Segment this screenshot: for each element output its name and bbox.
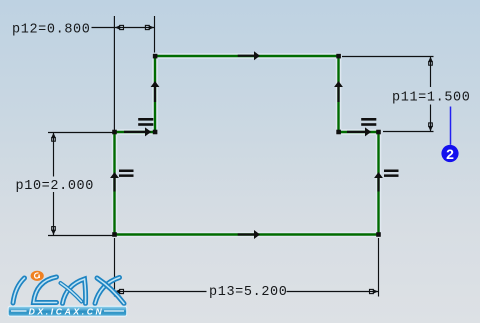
logo letter C (34, 277, 57, 303)
logo letter A (63, 279, 86, 304)
p10 extension line top (48, 132, 113, 134)
profile outline (green sketch curve) (115, 56, 379, 235)
dimension p10=2.000 (48, 133, 113, 236)
svg-text:p13=5.200: p13=5.200 (209, 285, 288, 300)
p11 dimension line (430, 57, 432, 88)
p13 arrowheads (115, 289, 378, 294)
direction arrow on bottom segment (238, 230, 260, 239)
svg-text:2: 2 (446, 146, 454, 162)
svg-text:DX.ICAX.CN: DX.ICAX.CN (29, 306, 105, 316)
p11 extension line bottom (383, 131, 434, 133)
direction arrow on lower-right vertical (374, 172, 383, 192)
equal-length constraint near lower-right vertical (384, 170, 399, 177)
svg-text:p12=0.800: p12=0.800 (12, 23, 91, 38)
vertex markers (112, 54, 381, 237)
p10 extension line bottom (48, 235, 113, 237)
direction arrow on lower-left vertical (110, 172, 119, 192)
dimension p12=0.800 (92, 16, 155, 131)
logo i dot (31, 271, 44, 281)
dimension p11=1.500 (342, 57, 434, 132)
direction arrow on upper-left vertical (151, 81, 160, 102)
p13 dimension line (115, 291, 207, 293)
dimension p13=5.200 (115, 238, 379, 297)
p12 arrowheads (115, 25, 154, 30)
equal-length constraint near left step (138, 118, 153, 126)
profile outline halo (115, 56, 379, 235)
equal-length constraint near lower-left vertical (119, 170, 134, 177)
logo letter i stroke (13, 278, 25, 303)
p13 extension line left (114, 238, 116, 297)
p11 arrowheads (428, 57, 433, 132)
direction arrow on upper-right vertical (334, 81, 343, 102)
equal-length constraint near right step (361, 118, 376, 126)
balloon leader line (450, 107, 452, 145)
p12 extension line right (154, 16, 156, 53)
logo letter X (95, 278, 120, 304)
logo banner center lines (11, 310, 27, 312)
p10 dimension line (53, 133, 55, 177)
direction arrow on top segment (238, 51, 260, 60)
logo banner (8, 306, 127, 316)
p12 dimension line (92, 27, 155, 29)
iCAX logo (13, 277, 124, 304)
p11 extension line top (342, 56, 434, 58)
svg-text:p11=1.500: p11=1.500 (392, 91, 471, 106)
p13 extension line right (378, 238, 380, 297)
svg-text:p10=2.000: p10=2.000 (16, 179, 95, 194)
direction arrow on left step segment (124, 127, 151, 136)
p12 extension line left (113, 16, 115, 131)
p10 arrowheads (51, 133, 56, 235)
direction arrow on right step segment (347, 127, 371, 136)
balloon 2 (441, 145, 458, 162)
